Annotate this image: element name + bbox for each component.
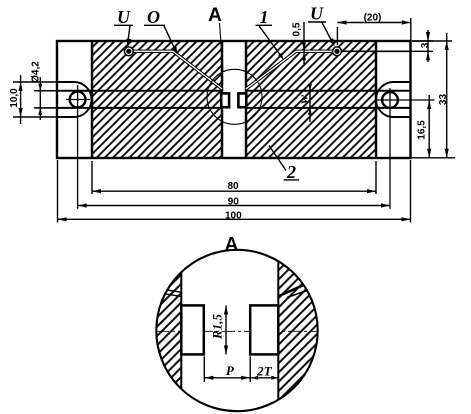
svg-text:P: P [226,363,235,378]
svg-text:100: 100 [225,211,242,222]
svg-text:R1,5: R1,5 [210,314,225,340]
svg-text:U: U [310,4,324,24]
svg-text:(20): (20) [364,13,382,24]
svg-text:10,0: 10,0 [9,88,20,108]
svg-text:A: A [208,5,222,26]
svg-text:80: 80 [227,181,239,192]
svg-text:0,5: 0,5 [292,22,303,36]
svg-text:33: 33 [438,94,449,106]
svg-text:w: w [296,95,311,104]
svg-text:A: A [225,235,239,256]
svg-text:Ø4,2: Ø4,2 [31,61,42,83]
svg-text:2T: 2T [256,364,273,379]
svg-text:1: 1 [260,7,269,27]
svg-text:2: 2 [286,162,296,182]
svg-text:90: 90 [228,196,240,207]
svg-text:3: 3 [420,42,431,48]
svg-text:16,5: 16,5 [417,120,428,140]
svg-text:U: U [117,7,131,27]
svg-text:O: O [147,7,160,27]
